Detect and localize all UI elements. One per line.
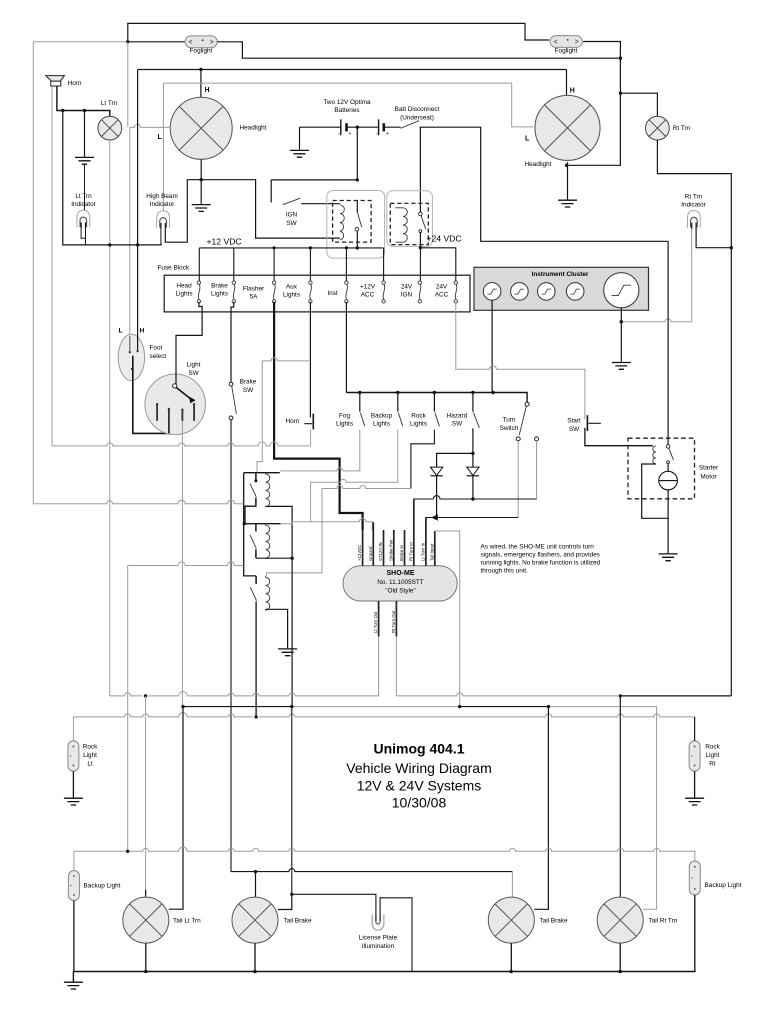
node: Lt turn drop — [144, 694, 147, 697]
wire: left headlight L wire — [130, 124, 171, 127]
node: Rt turn-in rail tap — [471, 497, 474, 500]
node: license tap — [290, 893, 293, 896]
relay K2 contact — [419, 203, 421, 212]
SHO-ME input pins — [363, 499, 435, 566]
svg-text:Lt Turn Out: Lt Turn Out — [373, 611, 378, 633]
wire: cluster ground — [620, 308, 622, 362]
fuse: +12V ACC — [382, 281, 385, 303]
svg-text:Tail Brake: Tail Brake — [540, 918, 569, 925]
wire: Tail Brake 2 side feed — [534, 707, 548, 910]
wire: brake drop to Tail Brake 1 — [255, 872, 257, 898]
wire: foglight right output — [583, 42, 620, 59]
node: LtTrn indicator branch — [61, 109, 64, 112]
flasher unit 3 switch — [255, 576, 257, 584]
switch: Start push — [586, 415, 588, 431]
foot select H pin — [137, 332, 139, 351]
lamp: Lt Trn — [98, 116, 122, 140]
svg-text:SW: SW — [569, 426, 580, 433]
wire: IGN switch to relay1 coil — [301, 203, 340, 205]
light switch rotor contact — [173, 384, 177, 388]
wire: indicator branch down — [63, 111, 162, 245]
svg-text:Indicator: Indicator — [681, 202, 706, 209]
svg-text:Horn: Horn — [286, 418, 300, 425]
lamp: Tail Lt Trn — [123, 897, 169, 943]
wire: foglight node to L node (gray) — [127, 42, 129, 128]
svg-text:Light: Light — [187, 362, 201, 369]
wire: backup rail (gray) — [74, 847, 695, 870]
switch: Horn push — [312, 414, 314, 430]
wire: left headlight H drop — [200, 70, 202, 98]
svg-text:12V & 24V Systems: 12V & 24V Systems — [357, 778, 482, 794]
ground: rock Rt — [685, 798, 704, 805]
wire: ground rail stem — [72, 972, 74, 982]
svg-text:Vehicle Wiring Diagram: Vehicle Wiring Diagram — [346, 760, 492, 776]
svg-text:"Old Style": "Old Style" — [385, 587, 415, 594]
wire: unit1 feed tap from aux line (gray) — [262, 358, 310, 361]
node: bus taps — [273, 246, 276, 249]
switch: Turn Switch — [525, 402, 529, 406]
svg-text:Foglight: Foglight — [190, 48, 213, 55]
svg-text:Brake: Brake — [240, 379, 257, 386]
svg-text:Fuse Block: Fuse Block — [158, 265, 190, 272]
wire: turn switch right output (gray) — [536, 441, 538, 499]
node: rail tap foot H line — [136, 243, 139, 246]
node: tail brake tap left — [254, 870, 257, 873]
wire: foglight bus down to turn lamp junction — [619, 58, 621, 93]
wire: Lt Trn indicator legs — [81, 229, 85, 245]
wire: foglight left output to right side — [217, 42, 619, 58]
horn — [46, 76, 65, 82]
node: foglight junction — [126, 40, 129, 43]
light switch blade — [176, 388, 190, 399]
foglight lamp left — [185, 36, 217, 48]
node: Rt Trn indicator junction — [730, 246, 733, 249]
wire: top frame line — [128, 23, 550, 41]
capsule: Backup Light Rt — [689, 861, 700, 895]
svg-text:No. 11.1005STT: No. 11.1005STT — [377, 579, 424, 586]
wire: horn switched lead (gray) — [51, 86, 53, 446]
wire: unit3 output to rock rail — [255, 601, 257, 717]
node: left headlight ground junction — [200, 178, 203, 181]
svg-text:signals, emergency flashers, a: signals, emergency flashers, and provide… — [481, 552, 600, 559]
wire: flasher chain left vertical — [244, 473, 256, 576]
wire: gauge1 feed down to switch bus — [491, 300, 493, 392]
ground: right headlight — [558, 200, 577, 207]
wire: 24V fuse feeds — [420, 248, 455, 281]
lamp: Tail Rt Trn — [597, 897, 643, 943]
svg-text:Flasher: Flasher — [243, 286, 265, 293]
svg-text:SW: SW — [243, 387, 254, 394]
svg-text:H: H — [205, 87, 210, 94]
node: IGN rail junction — [356, 178, 359, 181]
node: unit2 feed — [243, 522, 246, 525]
fuse: Flasher 5A — [272, 281, 275, 303]
svg-text:SHO-ME: SHO-ME — [387, 570, 415, 577]
lamp: Tail Brake 1 — [232, 897, 278, 943]
node: backup rail feed tap — [126, 850, 129, 853]
wire: D1 output to Lt turn rail — [436, 476, 438, 516]
wire: fog switch output to flasher unit1 (gray) — [280, 430, 360, 471]
starter motor box (dashed) — [628, 438, 695, 499]
motor M — [659, 471, 678, 490]
svg-text:Head: Head — [176, 283, 192, 290]
svg-text:Turn: Turn — [503, 417, 516, 424]
svg-text:+12V: +12V — [360, 284, 376, 291]
wire: ground stem — [84, 111, 86, 157]
wire: low beam rail (gray) — [163, 83, 533, 127]
svg-text:SW: SW — [286, 220, 297, 227]
wire: feed to Rt Trn lamp — [620, 93, 657, 116]
wire: backup feed drop (gray) — [127, 566, 129, 852]
svg-text:Inst: Inst — [327, 290, 338, 297]
SHO-ME unit body — [343, 566, 457, 601]
node: Rt Trn feed junction — [619, 92, 622, 95]
wire: bus fuse drops — [199, 248, 383, 281]
svg-text:Foglight: Foglight — [555, 47, 578, 54]
svg-text:Light: Light — [706, 752, 720, 759]
svg-text:+12VDC: +12VDC — [357, 545, 362, 561]
foot select wiper pin — [131, 368, 133, 370]
wire: motor to ground — [667, 490, 669, 553]
connector shell (gray) around relay2 — [387, 191, 433, 247]
wire: left foglight feed (gray) — [33, 41, 128, 43]
svg-text:Rock: Rock — [705, 744, 720, 751]
ground: left headlight — [192, 205, 211, 212]
wire: Lt turn-in rail to SHO-ME pin7 — [426, 518, 518, 531]
battery B1 — [340, 119, 342, 135]
wire: hazard output to diodes — [472, 428, 474, 467]
svg-text:+12 VDC: +12 VDC — [207, 237, 242, 247]
wire: unit3 coil to ground — [266, 609, 288, 648]
gauge: speedometer — [604, 273, 639, 308]
lamp: left headlight — [170, 97, 232, 159]
wire: license right lead to ground rail — [380, 898, 412, 972]
wire: battery ground stem — [299, 127, 301, 150]
svg-text:Lt Trn: Lt Trn — [75, 193, 92, 200]
wire: gray rail to SHO-ME ground pin — [295, 518, 372, 530]
svg-text:select: select — [150, 353, 167, 360]
svg-text:Fog: Fog — [339, 413, 350, 420]
wire: IGN switch feed — [271, 180, 357, 203]
ground: battery — [290, 150, 309, 157]
wire: high beam rail — [138, 69, 567, 71]
svg-text:Lights: Lights — [175, 291, 192, 298]
svg-text:Unimog 404.1: Unimog 404.1 — [373, 741, 464, 757]
svg-text:Headlight: Headlight — [525, 161, 552, 168]
wire: solenoid return loop — [642, 464, 668, 518]
svg-text:10/30/08: 10/30/08 — [392, 795, 447, 811]
wire: rock Rt ground — [694, 771, 696, 797]
wire: horn rail (gray) — [52, 442, 311, 446]
wire: tail rail — [183, 706, 292, 708]
switch: IGN SW blade — [283, 198, 301, 205]
svg-text:(Underseat): (Underseat) — [400, 115, 434, 122]
lamp: Tail Brake 2 — [488, 897, 534, 943]
wire: foot select L feed (gray) — [129, 127, 131, 336]
svg-text:License Plate: License Plate — [359, 935, 398, 942]
flasher unit 1 coil — [266, 473, 270, 507]
fuse: Head Lights — [197, 281, 200, 303]
svg-text:ST12V IN: ST12V IN — [378, 542, 383, 561]
wire: brake switch output (long, to tail brake rail) — [231, 420, 512, 872]
node: bus taps — [358, 391, 361, 394]
fuse: Inst — [345, 281, 348, 303]
ground: rock Lt — [64, 798, 83, 805]
wire: ground to Lt Trn indicator top — [84, 164, 86, 210]
wire: brake fuse to brake switch — [231, 302, 234, 382]
relay K1 12V (dashed) — [333, 201, 372, 243]
svg-text:H: H — [570, 88, 575, 95]
svg-text:Tail Input: Tail Input — [429, 543, 434, 561]
node: diode branch — [471, 452, 474, 455]
starter solenoid coil — [653, 446, 656, 464]
svg-text:Tail Rt Trn: Tail Rt Trn — [649, 918, 678, 925]
svg-text:Ground: Ground — [368, 546, 373, 561]
wire: turn rail left (gray) — [110, 637, 379, 696]
wire: rock Rt feed — [694, 717, 696, 741]
node: +24VDC junction — [419, 246, 422, 249]
gauge 2 — [511, 283, 529, 301]
wire: Rt turn-in rail to SHO-ME pin6 — [414, 496, 537, 530]
wire: backup Lt to ground rail — [73, 901, 75, 972]
fuse block box — [164, 275, 470, 312]
flasher unit 1 switch — [255, 473, 257, 480]
ground: starter motor — [659, 554, 678, 561]
switch: Fog Lights — [359, 393, 361, 412]
svg-text:Brake: Brake — [211, 283, 228, 290]
svg-text:IGN: IGN — [401, 292, 413, 299]
node: foglight right junction — [619, 57, 622, 60]
wire: outer left frame (gray) — [32, 42, 34, 504]
svg-text:Foot: Foot — [150, 345, 163, 352]
wire: contact to motor — [667, 464, 669, 472]
flasher unit 2 coil — [266, 524, 270, 559]
svg-text:Lights: Lights — [283, 292, 300, 299]
indicator: Rt Trn — [688, 211, 701, 229]
svg-text:ACC: ACC — [435, 292, 449, 299]
wire: headlight ground node to relay1 coil low side — [201, 180, 340, 238]
svg-text:through this unit.: through this unit. — [481, 568, 528, 575]
wire: rock rail (gray) — [73, 713, 694, 741]
svg-text:Start: Start — [567, 418, 581, 425]
fuse: 24V IGN — [418, 281, 421, 303]
svg-text:Lt Turn In: Lt Turn In — [421, 542, 426, 561]
wire: foot select H feed — [137, 70, 139, 332]
svg-text:Rt Trn: Rt Trn — [673, 125, 691, 132]
wire: tail input from tail rail (gray) — [435, 531, 460, 707]
wire: Rt Trn indicator left leg to cluster ground (gray) — [621, 229, 691, 322]
light switch pin 2 — [168, 409, 170, 433]
lamp: Rt Trn — [646, 116, 670, 140]
foot select body — [118, 334, 144, 380]
wire: backup feed rail (gray) — [128, 562, 244, 566]
svg-text:Backup Light: Backup Light — [84, 883, 121, 890]
svg-text:Tail Brake: Tail Brake — [284, 918, 313, 925]
svg-text:running lights. No brake func: running lights. No brake function is uti… — [481, 560, 601, 567]
wire: head lights fuse to light switch — [176, 302, 202, 384]
license plate lamp — [372, 914, 384, 930]
wire: rock line to flasher unit3 (gray) — [267, 486, 411, 576]
foot select L pin — [129, 336, 131, 352]
gauge 1 — [483, 283, 501, 301]
wire: battery to IGN rail — [356, 127, 358, 180]
switch: Start SW feed (gray) — [456, 302, 585, 419]
wire: brake rail right corner into Tail Brake 2 — [511, 872, 513, 898]
svg-text:Lights: Lights — [373, 421, 390, 428]
wire: left headlight bottom — [200, 159, 202, 180]
flasher unit 1 top rail — [244, 472, 280, 474]
svg-text:Headlight: Headlight — [240, 125, 267, 132]
wire: unit2 output rail — [256, 557, 292, 559]
wire: Rt Trn lamp return to right edge — [657, 140, 731, 696]
svg-text:Illumination: Illumination — [362, 943, 395, 950]
svg-text:Rt: Rt — [709, 761, 716, 768]
flasher unit 2 top rail — [244, 523, 280, 525]
wire: turn switch left output (gray) — [517, 441, 519, 518]
wire: backup switch output (gray) — [311, 430, 398, 522]
switch: Hazard SW — [472, 393, 474, 412]
svg-text:Strobe Pwr: Strobe Pwr — [388, 539, 393, 561]
arrow: D1 into Lt turn rail — [431, 514, 438, 521]
relay K2 coil — [395, 208, 407, 242]
indicator: High Beam — [157, 211, 170, 229]
svg-text:Backup Light: Backup Light — [705, 882, 742, 889]
wire: inst fuse to switch bus — [345, 302, 347, 393]
svg-text:Instrument Cluster: Instrument Cluster — [532, 271, 589, 278]
svg-text:Batt Disconnect: Batt Disconnect — [395, 106, 440, 113]
wire: headlight ground stem — [200, 180, 202, 204]
svg-text:Lights: Lights — [211, 291, 228, 298]
wire: rock switch output — [411, 430, 435, 489]
node: ground rail taps — [144, 970, 148, 974]
wire: high beam indicator top feed — [162, 83, 164, 211]
relay K2 24V (dashed) — [390, 203, 428, 244]
ground: horn / Lt Trn — [75, 157, 94, 164]
wire: bottom ground rail — [73, 971, 695, 973]
svg-text:Rt Trn: Rt Trn — [685, 194, 703, 201]
svg-text:5A: 5A — [250, 294, 259, 301]
relay K1 contact — [356, 201, 358, 213]
fuse: Aux Lights — [309, 281, 312, 303]
svg-text:Rock: Rock — [411, 413, 426, 420]
svg-text:Batteries: Batteries — [334, 107, 359, 114]
battery B2 — [378, 119, 380, 135]
wire: D2 output to Rt turn rail — [472, 476, 474, 499]
wire: light switch tail output (gray) — [181, 421, 183, 707]
svg-text:L: L — [525, 136, 530, 143]
wire: battery main line — [300, 127, 669, 241]
wire: right headlight H drop — [566, 70, 568, 96]
wire: license/brake1 side feed — [291, 707, 293, 895]
switch: Backup Lights — [397, 393, 399, 412]
wire: 24V feed to relay2 — [419, 127, 421, 203]
wire: lamp ground drops — [146, 943, 620, 971]
ground: main chassis — [64, 982, 83, 989]
node: horn ground tap — [83, 109, 86, 112]
wire: flasher fuse to SHO-ME +12VDC (thick) — [274, 302, 363, 530]
wire: aux fuse to horn switch — [309, 302, 311, 418]
ground: flasher coils — [278, 649, 297, 656]
svg-text:Switch: Switch — [500, 425, 519, 432]
light switch pin 3 — [181, 410, 183, 421]
relay K1 coil — [340, 205, 344, 240]
svg-text:Rock: Rock — [83, 744, 98, 751]
svg-text:Indicator: Indicator — [150, 201, 175, 208]
svg-text:SW: SW — [452, 421, 463, 428]
node: tail rail taps — [181, 705, 184, 708]
wire: left gray rail — [33, 500, 243, 504]
svg-text:Lights: Lights — [410, 421, 427, 428]
connector shell (gray) around relay1 — [327, 191, 385, 259]
switch: Brake SW — [229, 382, 233, 386]
wire: switch bus — [346, 393, 527, 403]
switch: Rock Lights — [433, 393, 435, 412]
svg-text:Lt: Lt — [87, 761, 93, 768]
svg-text:24V: 24V — [436, 284, 448, 291]
svg-text:IGN: IGN — [286, 212, 298, 219]
gauge 3 — [538, 283, 556, 301]
wire: contact feed from +24 — [667, 241, 669, 444]
svg-text:Horn: Horn — [68, 80, 82, 87]
svg-text:As wired, the SHO-ME unit cont: As wired, the SHO-ME unit controls turn — [481, 544, 595, 551]
svg-text:Rt Turn In: Rt Turn In — [408, 542, 413, 561]
diode D2 — [467, 467, 479, 475]
instrument cluster box — [474, 267, 649, 310]
wire: turn rail right black segment — [620, 695, 731, 697]
wire: unit1 feed down (gray) — [257, 361, 262, 472]
wire: HB indicator left leg to rail — [160, 229, 162, 245]
diode D1 — [430, 467, 442, 475]
switch: battery disconnect blade — [401, 121, 419, 129]
wire: Lt Trn lamp side feed — [169, 707, 183, 910]
svg-text:L: L — [158, 134, 163, 141]
light switch pin 4 — [193, 405, 195, 421]
svg-text:+: + — [349, 131, 352, 137]
wire: backup Rt to ground rail — [694, 895, 697, 972]
wire: foglight return to headlight ground node — [567, 93, 621, 165]
svg-text:Aux: Aux — [286, 284, 298, 291]
fuse: 24V ACC — [454, 281, 457, 303]
wire: right headlight bottom to ground — [567, 162, 569, 199]
wire: branch to diode D1 — [437, 453, 473, 467]
svg-text:Two 12V Optima: Two 12V Optima — [323, 99, 371, 106]
ground: instrument cluster — [612, 363, 631, 370]
svg-text:+: + — [386, 131, 389, 137]
svg-text:Lt Trn: Lt Trn — [101, 100, 118, 107]
wire: horn switch output (gray to horn rail) — [310, 430, 312, 446]
svg-text:Light: Light — [83, 752, 97, 759]
indicator: Lt Trn — [77, 210, 90, 228]
wire: turn rail right (gray) — [396, 637, 618, 696]
capsule: Rock Light Rt — [689, 741, 700, 771]
svg-text:Brake In: Brake In — [399, 544, 404, 561]
svg-text:Indicator: Indicator — [71, 201, 96, 208]
wire: rock Lt ground — [72, 771, 74, 797]
svg-text:Backup: Backup — [371, 413, 393, 420]
light switch pin 1 — [156, 405, 158, 421]
flasher unit 3 coil — [266, 576, 270, 610]
svg-text:Starter: Starter — [699, 465, 719, 472]
svg-text:Lights: Lights — [336, 421, 353, 428]
wire: license left lead — [292, 894, 376, 921]
node: battery junction — [356, 126, 359, 129]
svg-text:24V: 24V — [401, 284, 413, 291]
svg-text:Motor: Motor — [700, 474, 717, 481]
svg-text:L: L — [119, 328, 123, 335]
svg-text:H: H — [140, 328, 145, 335]
svg-text:+24 VDC: +24 VDC — [427, 234, 462, 244]
flasher unit 2 switch — [255, 524, 257, 532]
